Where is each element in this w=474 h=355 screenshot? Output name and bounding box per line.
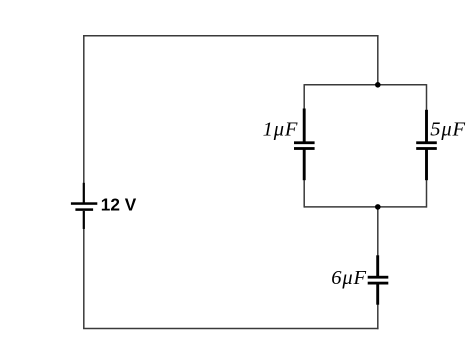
svg-text:12 V: 12 V <box>101 195 137 215</box>
battery 12 V: long plate (+) <box>71 202 97 205</box>
wire: bottom horizontal <box>83 328 379 330</box>
capacitor C3 (6uF): top thick lead <box>376 255 379 276</box>
wire: left branch upper lead-in to C1 <box>303 84 305 109</box>
capacitor C1 (1uF): bottom plate <box>294 147 315 150</box>
capacitor C3 (6uF): bottom thick lead <box>376 284 379 305</box>
battery 12 V: top thick lead <box>83 183 85 203</box>
wire: parallel box top <box>304 84 426 86</box>
svg-text:5μF: 5μF <box>430 119 466 141</box>
capacitor C2 (5uF): top plate <box>416 141 437 144</box>
capacitor C1 (1uF): bottom thick lead <box>303 149 306 180</box>
capacitor C2 (5uF): top thick lead <box>425 110 428 142</box>
wire: middle branch from C3 down to bottom wire <box>377 304 379 329</box>
wire: left rail upper segment <box>83 35 85 183</box>
svg-text:6μF: 6μF <box>331 267 367 289</box>
capacitor C1 (1uF): top plate <box>294 141 315 144</box>
node A: junction dot (top) <box>375 82 381 88</box>
capacitor C3 (6uF): bottom plate <box>368 282 389 285</box>
node B: junction dot (bottom) <box>375 204 381 210</box>
capacitor C3 (6uF): top plate <box>368 276 389 279</box>
capacitor C2 (5uF): bottom plate <box>416 147 437 150</box>
battery 12 V: short plate (-) <box>75 208 93 211</box>
capacitor C1 (1uF): top thick lead <box>303 109 306 143</box>
wire: left rail lower segment <box>83 228 85 328</box>
wire: middle branch from node B down to C3 <box>377 206 379 256</box>
wire: parallel box bottom <box>304 206 426 208</box>
wire: right drop from top wire to node A <box>377 35 379 85</box>
wire: left branch lower lead-out of C1 <box>303 180 305 208</box>
svg-text:1μF: 1μF <box>263 119 299 141</box>
wire: top horizontal <box>83 35 379 37</box>
wire: right branch lower lead-out of C2 <box>426 180 428 208</box>
battery 12 V: bottom thick lead <box>83 211 85 229</box>
capacitor C2 (5uF): bottom thick lead <box>425 149 428 180</box>
wire: right branch upper lead-in to C2 <box>426 84 428 110</box>
